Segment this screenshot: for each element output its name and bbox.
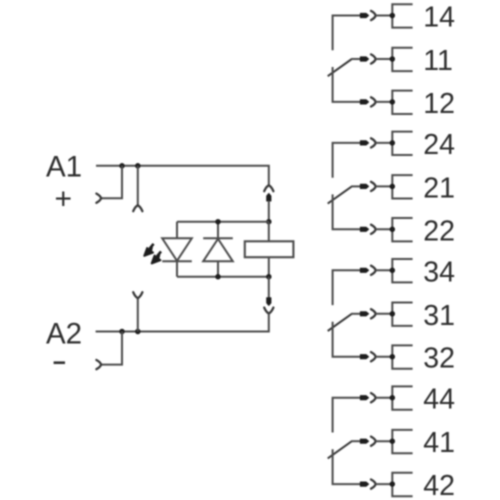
terminal clamp 14 — [392, 4, 412, 27]
pin arrow contact 31 — [360, 312, 368, 316]
pin arrow contact 21 — [360, 184, 368, 188]
wire diode anode lead — [217, 261, 219, 276]
svg-text:14: 14 — [423, 2, 455, 34]
socket chevron contact 31 — [371, 309, 376, 318]
wire NC contact 12 row with left rise — [333, 67, 361, 102]
junction dot at terminal 31 — [390, 311, 396, 317]
LED D1 triangle — [162, 238, 192, 260]
junction dot at terminal 11 — [390, 56, 396, 62]
svg-text:24: 24 — [423, 129, 455, 161]
junction dot at terminal 42 — [390, 481, 396, 487]
wire NO contact 24 row with left drop — [333, 143, 361, 178]
socket chevron contact 11 — [371, 54, 376, 63]
wire coil top lead — [268, 201, 270, 222]
wire NC contact 42 row with left rise — [333, 449, 361, 484]
socket fork coil top — [264, 185, 273, 191]
wire chevron to terminal 11 — [376, 58, 393, 60]
relay coil K1 — [245, 241, 294, 257]
junction node A2 a — [119, 329, 125, 335]
wire chevron to terminal 42 — [376, 483, 393, 485]
terminal clamp 41 — [392, 430, 412, 453]
terminal clamp 44 — [392, 386, 412, 409]
svg-text:34: 34 — [423, 256, 455, 288]
junction coil top right — [266, 219, 272, 225]
socket chevron contact 32 — [371, 352, 376, 361]
terminal clamp 31 — [392, 303, 412, 326]
socket chevron + input — [96, 194, 101, 203]
terminal clamp 12 — [392, 91, 412, 114]
svg-text:+: + — [55, 183, 73, 216]
pin arrow coil top — [267, 193, 271, 201]
terminal clamp 32 — [392, 345, 412, 368]
junction dot at terminal 41 — [390, 438, 396, 444]
switch arm common 31 — [328, 314, 352, 331]
switch arm common 11 — [328, 59, 352, 76]
pin arrow coil bottom — [267, 298, 271, 306]
wire diode cathode lead — [217, 222, 219, 239]
socket chevron contact 34 — [371, 266, 376, 275]
junction diode top — [215, 219, 221, 225]
socket chevron contact 44 — [371, 393, 376, 402]
wire chevron to terminal 12 — [376, 101, 393, 103]
wire - stub — [101, 332, 122, 365]
socket chevron contact 12 — [371, 97, 376, 106]
junction dot at terminal 34 — [390, 268, 396, 274]
wire LED anode lead — [176, 222, 178, 239]
svg-text:A2: A2 — [46, 318, 82, 351]
svg-text:11: 11 — [423, 45, 453, 77]
socket chevron contact 22 — [371, 225, 376, 234]
wire NC contact 32 row with left rise — [333, 322, 361, 357]
terminal clamp 24 — [392, 132, 412, 155]
socket chevron contact 21 — [371, 182, 376, 191]
svg-text:32: 32 — [423, 343, 455, 375]
wire chevron to terminal 41 — [376, 440, 393, 442]
svg-text:12: 12 — [423, 88, 455, 120]
junction node A2 b — [135, 329, 141, 335]
socket chevron contact 41 — [371, 437, 376, 446]
wire chevron to terminal 24 — [376, 142, 393, 144]
pin arrow contact 34 — [360, 268, 368, 272]
socket fork above A2 — [133, 292, 142, 298]
wire LED cathode lead — [176, 261, 178, 276]
socket chevron contact 24 — [371, 138, 376, 147]
socket chevron contact 42 — [371, 480, 376, 489]
socket fork below A1 — [133, 205, 142, 211]
freewheeling diode D2 triangle — [203, 239, 233, 261]
svg-text:22: 22 — [423, 215, 455, 247]
wire chevron to terminal 21 — [376, 185, 393, 187]
junction dot at terminal 22 — [390, 227, 396, 233]
wire coil K1 upper lead — [268, 222, 270, 242]
svg-text:21: 21 — [423, 172, 455, 204]
switch arm common 41 — [328, 441, 352, 458]
wire NO contact 44 row with left drop — [333, 398, 361, 433]
wire chevron to terminal 14 — [376, 15, 393, 17]
wire chevron to terminal 31 — [376, 313, 393, 315]
terminal clamp 21 — [392, 175, 412, 198]
wire coil bottom lead — [268, 277, 270, 298]
junction diode bottom — [215, 274, 221, 280]
wire chevron to terminal 44 — [376, 397, 393, 399]
wire A2 rail — [96, 314, 269, 332]
junction dot at terminal 44 — [390, 395, 396, 401]
switch arm common 21 — [328, 186, 352, 203]
wire chevron to terminal 32 — [376, 356, 393, 358]
diode D2 cathode bar — [203, 237, 233, 239]
svg-text:41: 41 — [423, 427, 455, 459]
pin arrow contact 32 — [360, 355, 368, 359]
wire chevron to terminal 34 — [376, 269, 393, 271]
pin arrow contact 14 — [360, 13, 368, 17]
LED light emission arrow 2 — [157, 251, 161, 256]
socket chevron - input — [96, 360, 101, 369]
pin arrow contact 24 — [360, 141, 368, 145]
polarity label - — [54, 361, 65, 364]
wire common row 21 — [351, 185, 360, 187]
svg-text:31: 31 — [423, 300, 455, 332]
terminal clamp 34 — [392, 259, 412, 282]
wire NO contact 14 row with left drop — [333, 16, 361, 51]
svg-text:42: 42 — [423, 470, 455, 500]
wire common row 31 — [351, 313, 360, 315]
pin arrow contact 42 — [360, 482, 368, 486]
wire common row 11 — [351, 58, 360, 60]
LED light emission arrow 1 — [149, 244, 153, 249]
terminal clamp 11 — [392, 48, 412, 71]
pin arrow contact 44 — [360, 396, 368, 400]
terminal clamp 22 — [392, 218, 412, 241]
socket chevron contact 14 — [371, 11, 376, 20]
pin arrow contact 22 — [360, 227, 368, 231]
wire A1 plug stub — [137, 166, 139, 205]
wire chevron to terminal 22 — [376, 228, 393, 230]
junction dot at terminal 21 — [390, 184, 396, 190]
wire A1 rail — [96, 166, 269, 185]
junction dot at terminal 32 — [390, 354, 396, 360]
LED D1 cathode bar — [162, 260, 192, 262]
wire A2 plug stub — [137, 298, 139, 331]
wire parallel box bottom rail — [177, 276, 269, 278]
pin arrow contact 11 — [360, 57, 368, 61]
wire coil K1 lower lead — [268, 257, 270, 277]
svg-text:A1: A1 — [46, 151, 82, 184]
wire common row 41 — [351, 440, 360, 442]
pin arrow contact 41 — [360, 439, 368, 443]
terminal clamp 42 — [392, 473, 412, 496]
wire parallel box top rail — [177, 221, 269, 223]
wire NC contact 22 row with left rise — [333, 194, 361, 229]
wire + stub — [101, 166, 122, 198]
junction coil bottom right — [266, 274, 272, 280]
junction node A1 b — [135, 163, 141, 169]
pin arrow contact 12 — [360, 100, 368, 104]
socket fork coil bottom — [264, 308, 273, 314]
junction dot at terminal 14 — [390, 13, 396, 19]
junction dot at terminal 12 — [390, 99, 396, 105]
svg-text:44: 44 — [423, 384, 455, 416]
wire NO contact 34 row with left drop — [333, 270, 361, 305]
junction dot at terminal 24 — [390, 140, 396, 146]
junction node A1 a — [119, 163, 125, 169]
